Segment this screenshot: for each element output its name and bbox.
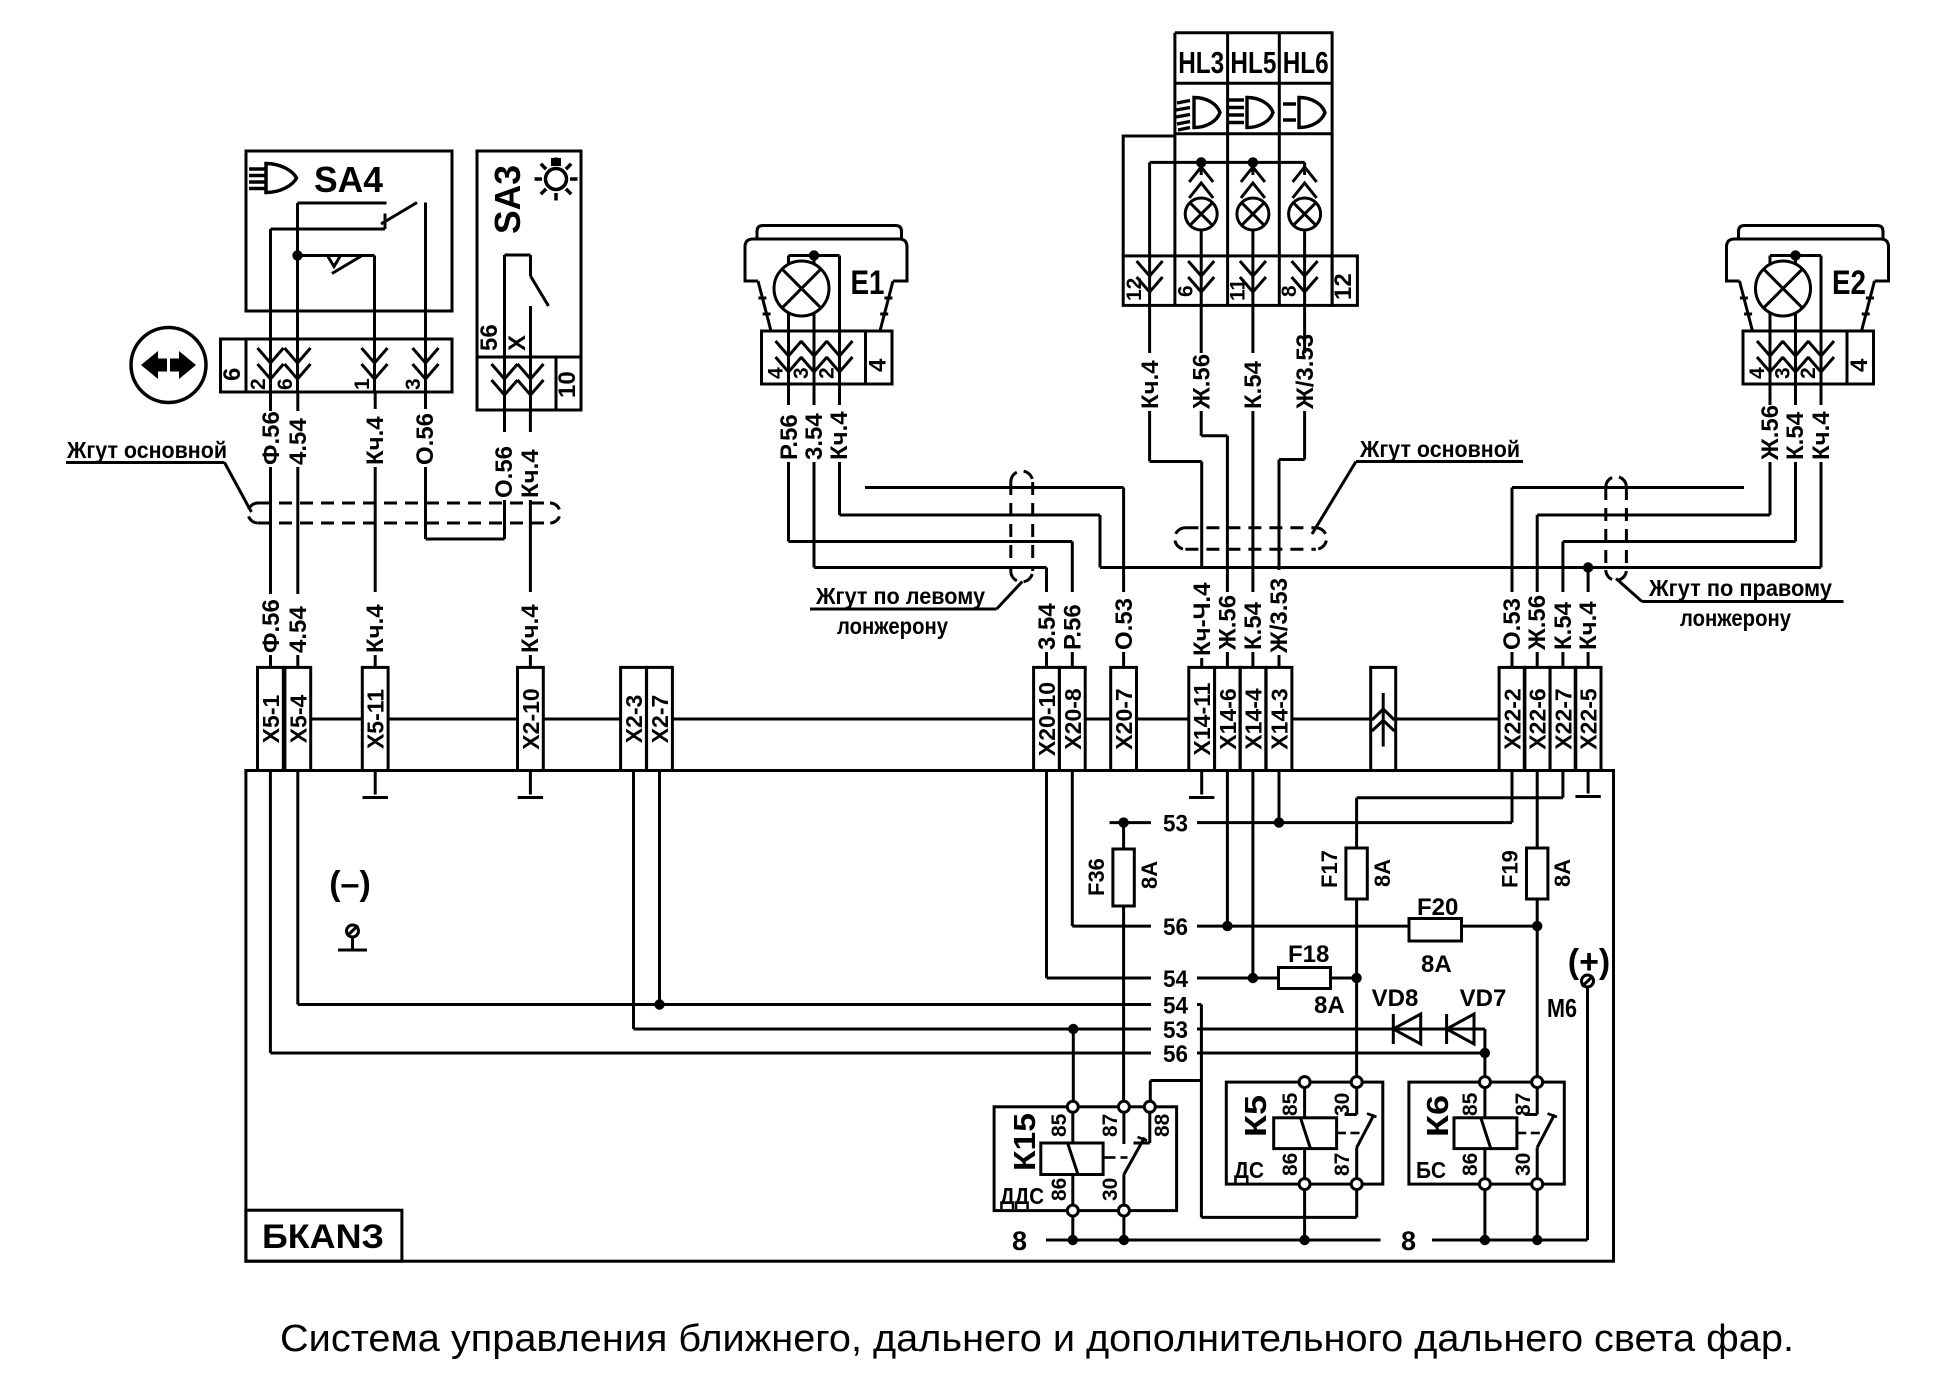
svg-text:4.54: 4.54 bbox=[285, 606, 312, 653]
wire Ж/3.53 (HL pin8) to X14-3 bbox=[1266, 305, 1319, 667]
svg-text:(–): (–) bbox=[329, 865, 371, 903]
svg-text:К.54: К.54 bbox=[1240, 601, 1267, 650]
svg-text:X20-8: X20-8 bbox=[1060, 688, 1086, 750]
svg-text:Система управления ближнего,: Система управления ближнего, дальнего и … bbox=[280, 1318, 1794, 1360]
svg-text:X14-3: X14-3 bbox=[1267, 688, 1293, 749]
svg-text:87: 87 bbox=[1099, 1114, 1122, 1137]
headlamp block HL3/HL5/HL6 outline bbox=[1123, 33, 1332, 256]
svg-text:ДДС: ДДС bbox=[1000, 1183, 1044, 1209]
net 53 row (upper: X20-7 / X14-3 / X22-2) bbox=[1110, 771, 1513, 838]
connector pin X5-11 bbox=[362, 667, 388, 770]
Е1 connector row bbox=[762, 331, 893, 384]
net 54 row (upper: X20-10 / X14-4 / F18 / K5-30) bbox=[1047, 771, 1362, 1020]
connector pin X22-7 bbox=[1550, 667, 1576, 770]
svg-text:БС: БС bbox=[1416, 1157, 1446, 1183]
svg-text:X22-7: X22-7 bbox=[1550, 688, 1576, 749]
svg-text:Ж.56: Ж.56 bbox=[1757, 405, 1784, 461]
svg-text:4: 4 bbox=[1846, 358, 1873, 372]
fuse F17 bbox=[1317, 771, 1563, 1083]
svg-text:87: 87 bbox=[1331, 1153, 1354, 1176]
connector pin X5-1 bbox=[258, 667, 284, 770]
diode VD7 bbox=[1447, 985, 1507, 1044]
wire О.56 (SA4 pin3 to SA3) bbox=[412, 392, 505, 539]
svg-text:X5-4: X5-4 bbox=[285, 695, 311, 744]
lamp of Е1 bbox=[774, 250, 840, 384]
connector chain line bbox=[311, 718, 1499, 721]
svg-text:Ж/3.53: Ж/3.53 bbox=[1266, 578, 1293, 654]
svg-text:4: 4 bbox=[765, 367, 788, 379]
svg-text:X20-7: X20-7 bbox=[1111, 688, 1137, 749]
wire Кч.4 (SA3 to X2-10) bbox=[517, 410, 544, 667]
svg-text:Жгут основной: Жгут основной bbox=[66, 437, 227, 463]
svg-text:Жгут по левому: Жгут по левому bbox=[815, 583, 985, 609]
svg-text:К.54: К.54 bbox=[1550, 601, 1577, 650]
svg-text:6: 6 bbox=[274, 378, 297, 390]
svg-text:К6: К6 bbox=[1420, 1095, 1455, 1137]
svg-text:X14-11: X14-11 bbox=[1189, 682, 1215, 755]
svg-text:Кч.4: Кч.4 bbox=[1575, 601, 1602, 650]
svg-text:HL5: HL5 bbox=[1230, 45, 1276, 80]
HL feed wire (pin 12) bbox=[1150, 157, 1305, 305]
svg-text:85: 85 bbox=[1048, 1113, 1071, 1137]
SA4 connector row bbox=[219, 339, 452, 392]
svg-text:56: 56 bbox=[1163, 1041, 1188, 1068]
svg-text:X2-3: X2-3 bbox=[621, 695, 647, 744]
HL connector row bbox=[1123, 256, 1357, 306]
svg-text:F20: F20 bbox=[1417, 894, 1458, 921]
Е2 connector row bbox=[1743, 331, 1874, 384]
svg-text:О.56: О.56 bbox=[491, 446, 518, 498]
svg-text:2: 2 bbox=[1797, 367, 1820, 379]
lamp of HL3 bbox=[1185, 162, 1217, 305]
svg-text:54: 54 bbox=[1163, 966, 1189, 993]
wire О.53 stub (toward Е1) to X20-7 bbox=[865, 488, 1124, 668]
svg-text:Ж.56: Ж.56 bbox=[1215, 595, 1242, 651]
block БКАNЗ name label bbox=[246, 1210, 402, 1261]
wire Ж.56 (Е2 pin4 to X22-6) bbox=[1537, 384, 1784, 515]
K6 terminals bbox=[1479, 1077, 1542, 1190]
K5 terminals bbox=[1299, 1077, 1362, 1190]
SA3 connector row bbox=[477, 357, 581, 410]
connector pin X14-3 bbox=[1266, 667, 1292, 770]
bus 8 (left segment) bbox=[1012, 1226, 1381, 1256]
ground symbol (block internal) bbox=[338, 925, 367, 950]
svg-text:лонжерону: лонжерону bbox=[837, 613, 948, 639]
connector pin X22-6 bbox=[1524, 667, 1550, 770]
svg-text:11: 11 bbox=[1227, 278, 1250, 301]
svg-text:X14-6: X14-6 bbox=[1215, 688, 1241, 749]
wire О.56 (SA3 pin 56) bbox=[491, 410, 518, 539]
wire Р.56 to X20-8 bbox=[1060, 542, 1087, 668]
svg-text:О.56: О.56 bbox=[412, 413, 439, 465]
K6 contact 87/30 bbox=[1525, 1088, 1557, 1179]
svg-text:86: 86 bbox=[1459, 1153, 1482, 1176]
net 56 row (upper: X20-8 / X14-6 / F20 / F19) bbox=[1072, 771, 1542, 942]
connector pin X5-4 bbox=[285, 667, 311, 770]
svg-text:Ф.56: Ф.56 bbox=[258, 411, 285, 465]
svg-text:53: 53 bbox=[1163, 1017, 1188, 1044]
svg-text:3.54: 3.54 bbox=[801, 413, 828, 460]
fuse F19 bbox=[1498, 771, 1576, 1083]
svg-text:Р.56: Р.56 bbox=[1060, 604, 1087, 650]
HL5 high-beam icon bbox=[1229, 98, 1273, 128]
harness label: Жгут по левому лонжерону bbox=[810, 582, 1022, 640]
harness label: Жгут по правому лонжерону bbox=[1616, 575, 1844, 631]
svg-text:8А: 8А bbox=[1550, 859, 1575, 887]
svg-text:Кч.4: Кч.4 bbox=[517, 604, 544, 653]
svg-text:56: 56 bbox=[476, 324, 503, 351]
connector pin X2-7 bbox=[647, 667, 673, 770]
svg-text:Е2: Е2 bbox=[1832, 264, 1866, 302]
ground stub under X2-10 bbox=[518, 771, 543, 798]
ground stub under X14-11 bbox=[1189, 771, 1214, 798]
K15 wires to bus 8 bbox=[1073, 1216, 1124, 1240]
svg-text:Кч.4: Кч.4 bbox=[826, 411, 853, 460]
net 53 row (lower: X2-3 / K15-85 / VD8 / VD7 / K6-85) bbox=[634, 771, 1491, 1107]
svg-text:VD8: VD8 bbox=[1372, 985, 1419, 1012]
relay K5 (ДС) bbox=[1226, 1082, 1383, 1184]
wire Кч.4 (Е1 pin2, joins long Кч.4 net) bbox=[826, 384, 1100, 568]
K15 contact 30/87/88 bbox=[1124, 1112, 1150, 1205]
svg-text:Ж.56: Ж.56 bbox=[1524, 595, 1551, 651]
svg-text:Кч.4: Кч.4 bbox=[1808, 411, 1835, 460]
battery feed M6 (+) bbox=[1547, 943, 1610, 1240]
connector pin X14-6 bbox=[1215, 667, 1241, 770]
svg-text:85: 85 bbox=[1459, 1092, 1482, 1116]
HL6 long-range icon bbox=[1283, 98, 1325, 128]
svg-text:86: 86 bbox=[1279, 1153, 1302, 1176]
HL3 low-beam icon bbox=[1176, 98, 1220, 131]
svg-text:8А: 8А bbox=[1421, 951, 1452, 978]
svg-text:8: 8 bbox=[1401, 1226, 1416, 1256]
svg-text:X: X bbox=[504, 335, 531, 351]
connector pin X22-5 bbox=[1575, 667, 1601, 770]
harness capsule (main, left) bbox=[248, 503, 560, 523]
fuse F20 bbox=[1409, 894, 1462, 978]
bus 8 (right segment) bbox=[1401, 1226, 1588, 1256]
svg-text:87: 87 bbox=[1512, 1093, 1535, 1116]
headlamp Е1 housing bbox=[745, 226, 907, 332]
svg-text:30: 30 bbox=[1099, 1178, 1122, 1201]
harness label: Жгут основной (middle) bbox=[1312, 436, 1523, 534]
wire 3.54 (Е1 pin3 to X20-10) bbox=[801, 384, 1047, 568]
svg-text:8А: 8А bbox=[1137, 861, 1162, 889]
svg-text:X22-5: X22-5 bbox=[1576, 688, 1602, 750]
svg-text:К15: К15 bbox=[1007, 1113, 1042, 1171]
svg-text:Жгут по правому: Жгут по правому bbox=[1648, 575, 1832, 601]
svg-text:2: 2 bbox=[816, 367, 839, 379]
turn indicator icon bbox=[131, 328, 206, 403]
svg-text:54: 54 bbox=[1163, 993, 1189, 1020]
net 56 row (lower: X5-1 / K6-85 node) bbox=[270, 771, 1485, 1069]
svg-text:К.54: К.54 bbox=[1782, 411, 1809, 460]
wire О.53 from X22-2 bbox=[1499, 488, 1526, 668]
wire К.54 (Е2 pin3 to X22-7) bbox=[1563, 384, 1809, 542]
connector pin X14-11 bbox=[1189, 667, 1215, 770]
fuse F36 bbox=[1084, 823, 1162, 1107]
wire 3.54 to X20-10 bbox=[1034, 568, 1061, 668]
svg-text:Кч.4: Кч.4 bbox=[362, 416, 389, 465]
svg-text:3: 3 bbox=[402, 378, 425, 390]
svg-text:3.54: 3.54 bbox=[1034, 603, 1061, 650]
svg-text:6: 6 bbox=[1175, 285, 1198, 297]
svg-text:10: 10 bbox=[554, 371, 581, 398]
svg-text:X20-10: X20-10 bbox=[1034, 682, 1060, 756]
wire К.54 (HL pin11) to X14-4 bbox=[1240, 305, 1267, 667]
svg-text:4.54: 4.54 bbox=[285, 418, 312, 465]
svg-text:Кч-Ч.4: Кч-Ч.4 bbox=[1189, 582, 1216, 656]
block БКАNЗ outline bbox=[246, 771, 1614, 1262]
svg-text:85: 85 bbox=[1279, 1092, 1302, 1116]
svg-text:30: 30 bbox=[1512, 1153, 1535, 1176]
svg-text:2: 2 bbox=[247, 378, 270, 390]
svg-text:8А: 8А bbox=[1370, 859, 1395, 887]
lamp of HL5 bbox=[1237, 162, 1269, 305]
svg-text:Ф.56: Ф.56 bbox=[258, 599, 285, 653]
svg-text:VD7: VD7 bbox=[1460, 985, 1507, 1012]
K5 contact 30/87 bbox=[1345, 1088, 1377, 1179]
K5 coil bbox=[1274, 1088, 1360, 1179]
svg-text:X2-7: X2-7 bbox=[647, 695, 673, 744]
svg-text:О.53: О.53 bbox=[1499, 598, 1526, 650]
svg-text:8: 8 bbox=[1278, 285, 1301, 297]
ground stub under X22-5 bbox=[1575, 771, 1600, 797]
harness capsule (main, middle) bbox=[1175, 528, 1327, 550]
svg-text:Ж/3.53: Ж/3.53 bbox=[1292, 334, 1319, 410]
wire Кч.4 (HL pin12) to Кч-Ч.4 / X14-11 bbox=[1137, 305, 1216, 667]
svg-text:HL6: HL6 bbox=[1283, 45, 1329, 80]
svg-text:лонжерону: лонжерону bbox=[1680, 605, 1791, 631]
svg-text:88: 88 bbox=[1151, 1113, 1174, 1137]
wire 4.54 (SA4 pin6 to X5-4) bbox=[285, 392, 312, 667]
K15 coil bbox=[1041, 1112, 1128, 1205]
K6 wires to bus 8 bbox=[1485, 1190, 1537, 1240]
wire О.53 stub (toward Е2) from X22-2 bbox=[1512, 486, 1744, 489]
svg-text:8А: 8А bbox=[1314, 992, 1345, 1019]
svg-text:Кч.4: Кч.4 bbox=[1137, 360, 1164, 409]
svg-text:X2-10: X2-10 bbox=[518, 688, 544, 749]
svg-text:53: 53 bbox=[1163, 811, 1188, 838]
svg-text:86: 86 bbox=[1048, 1178, 1071, 1201]
SA3 internal contact bbox=[476, 255, 549, 410]
svg-text:8: 8 bbox=[1012, 1226, 1027, 1256]
svg-text:30: 30 bbox=[1331, 1093, 1354, 1116]
ground stub under X5-11 bbox=[363, 771, 388, 798]
headlamp Е2 housing bbox=[1727, 226, 1889, 332]
svg-text:М6: М6 bbox=[1547, 993, 1577, 1023]
connector pin X20-8 bbox=[1059, 667, 1085, 770]
svg-text:3: 3 bbox=[790, 367, 813, 379]
wire К.54 from X22-7 bbox=[1550, 542, 1577, 668]
harness label: Жгут основной (left) bbox=[66, 437, 251, 512]
net 54 row (lower: X5-4 / X2-7 / K15-88 / K5-87) bbox=[298, 771, 1357, 1218]
svg-text:F18: F18 bbox=[1288, 941, 1329, 968]
svg-text:12: 12 bbox=[1123, 278, 1146, 301]
K15 terminals bbox=[1067, 1101, 1155, 1216]
svg-text:Ж.56: Ж.56 bbox=[1189, 354, 1216, 410]
svg-text:Р.56: Р.56 bbox=[776, 414, 803, 460]
connector pin X14-4 bbox=[1240, 667, 1266, 770]
svg-text:К.54: К.54 bbox=[1240, 360, 1267, 409]
wire Р.56 (Е1 pin4 to X20-8) bbox=[776, 384, 1072, 542]
svg-text:F19: F19 bbox=[1498, 850, 1523, 888]
svg-text:4: 4 bbox=[1746, 367, 1769, 379]
svg-text:БКАNЗ: БКАNЗ bbox=[262, 1218, 384, 1256]
switch SA3 box bbox=[477, 151, 581, 357]
lamp of Е2 bbox=[1756, 250, 1822, 384]
harness capsule (left frame rail) bbox=[1011, 471, 1033, 582]
wire Ф.56 (SA4 pin2 to X5-1) bbox=[258, 392, 285, 667]
wire О.53 label above X20-7 bbox=[1111, 598, 1138, 650]
svg-text:Кч.4: Кч.4 bbox=[517, 449, 544, 498]
svg-text:56: 56 bbox=[1163, 914, 1188, 941]
connector pin X2-3 bbox=[621, 667, 647, 770]
diode VD8 bbox=[1372, 985, 1421, 1044]
wire Кч.4 (Е2 pin2, long net to left) bbox=[1100, 384, 1835, 573]
svg-text:X5-1: X5-1 bbox=[258, 695, 284, 744]
relay K6 (БС) bbox=[1409, 1082, 1564, 1184]
svg-text:F17: F17 bbox=[1317, 850, 1342, 888]
K5 wire 86 to bus 8 bbox=[1303, 1190, 1306, 1240]
wire Кч.4 from X22-5 bbox=[1575, 568, 1602, 668]
wire Ж.56 (HL pin6) to X14-6 bbox=[1189, 305, 1242, 667]
svg-text:К5: К5 bbox=[1238, 1095, 1273, 1137]
svg-text:Жгут основной: Жгут основной bbox=[1359, 436, 1520, 462]
K6 coil bbox=[1454, 1088, 1540, 1179]
wire Ж.56 from X22-6 bbox=[1524, 515, 1551, 667]
connector pin X20-10 bbox=[1034, 667, 1060, 770]
svg-text:6: 6 bbox=[219, 368, 246, 381]
svg-text:X22-2: X22-2 bbox=[1500, 688, 1526, 749]
svg-text:X5-11: X5-11 bbox=[363, 689, 389, 749]
svg-text:HL3: HL3 bbox=[1178, 45, 1224, 80]
svg-text:4: 4 bbox=[865, 358, 892, 372]
harness capsule (right frame rail) bbox=[1606, 477, 1627, 581]
svg-text:Е1: Е1 bbox=[851, 264, 885, 302]
svg-text:О.53: О.53 bbox=[1111, 598, 1138, 650]
connector pin X2-10 bbox=[518, 667, 544, 770]
svg-text:X22-6: X22-6 bbox=[1525, 688, 1551, 749]
connector continuation pin (chevron) bbox=[1371, 667, 1396, 770]
connector pin X22-2 bbox=[1499, 667, 1525, 770]
switch SA4 box bbox=[246, 151, 452, 311]
svg-text:ДС: ДС bbox=[1234, 1157, 1264, 1183]
svg-text:SA4: SA4 bbox=[314, 159, 383, 200]
wire Кч.4 (SA4 pin1 to X5-11) bbox=[362, 392, 389, 667]
svg-text:1: 1 bbox=[351, 378, 374, 390]
svg-text:X14-4: X14-4 bbox=[1240, 688, 1266, 750]
SA4 internal contacts bbox=[271, 203, 426, 393]
relay K15 (ДДС) bbox=[994, 1107, 1177, 1211]
svg-text:F36: F36 bbox=[1084, 858, 1109, 896]
svg-text:SA3: SA3 bbox=[487, 165, 528, 234]
connector pin X20-7 bbox=[1111, 667, 1137, 770]
svg-text:Кч.4: Кч.4 bbox=[362, 604, 389, 653]
svg-text:12: 12 bbox=[1330, 273, 1357, 300]
lamp of HL6 bbox=[1289, 162, 1321, 305]
svg-text:3: 3 bbox=[1772, 367, 1795, 379]
